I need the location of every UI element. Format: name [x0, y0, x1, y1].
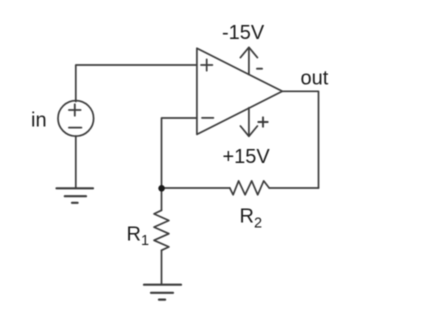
svg-text:1: 1 [141, 233, 149, 249]
svg-text:+15V: +15V [223, 146, 271, 168]
svg-text:-15V: -15V [222, 22, 265, 44]
svg-text:2: 2 [254, 216, 262, 232]
svg-text:out: out [301, 68, 329, 90]
svg-text:in: in [31, 110, 47, 132]
svg-text:R: R [127, 224, 141, 246]
svg-text:R: R [240, 206, 254, 228]
